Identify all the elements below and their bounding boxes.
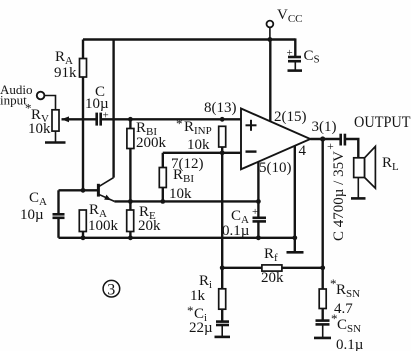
capacitor C 4700µ/35V: [327, 134, 347, 241]
svg-text:RINP: RINP: [184, 119, 212, 137]
capacitor C 10µ: [85, 84, 109, 126]
ground (CS): [288, 69, 303, 72]
svg-text:+: +: [327, 139, 334, 153]
wire pin2 column: [269, 40, 271, 122]
node Rf left: [220, 265, 225, 270]
wire pin5 column: [257, 162, 259, 201]
ground (CSN): [314, 337, 331, 340]
svg-text:5(10): 5(10): [259, 160, 292, 176]
resistor RBI 200k with column: [127, 119, 167, 201]
svg-text:0.1µ: 0.1µ: [336, 337, 364, 351]
node CA bottom: [256, 235, 261, 240]
resistor RA 100k: [79, 202, 118, 238]
svg-text:3(1): 3(1): [312, 119, 337, 135]
node pin5 junction: [256, 199, 261, 204]
svg-text:RSN: RSN: [336, 282, 360, 300]
svg-text:10k: 10k: [28, 121, 51, 137]
node output junction: [320, 136, 325, 141]
resistor RINP 10k with feedback column: [176, 116, 226, 268]
wire signal (wiper to op-amp +): [62, 118, 241, 120]
ground (pin4): [287, 251, 304, 254]
svg-text:100k: 100k: [88, 218, 119, 234]
transistor Q1: [98, 178, 114, 202]
svg-text:*: *: [176, 116, 183, 131]
svg-text:22µ: 22µ: [189, 320, 213, 336]
svg-text:input: input: [0, 93, 27, 108]
node VCC junction: [268, 37, 273, 42]
resistor RE 20k: [127, 201, 161, 237]
svg-text:10k: 10k: [169, 186, 192, 202]
svg-text:*: *: [187, 303, 194, 318]
speaker RL: [354, 146, 399, 188]
svg-text:RL: RL: [382, 155, 399, 173]
ground (Rv): [45, 131, 66, 142]
svg-text:Rf: Rf: [264, 246, 278, 264]
resistor RSN 4.7: [319, 268, 360, 321]
resistor RA 91k with column: [54, 40, 87, 191]
svg-text:+: +: [252, 206, 258, 218]
svg-text:10µ: 10µ: [20, 207, 44, 223]
node RE top: [128, 199, 133, 204]
resistor RBI 10k: [159, 153, 203, 202]
wire output row: [310, 138, 340, 140]
wire pin4 column: [294, 146, 296, 253]
svg-text:2(15): 2(15): [274, 109, 307, 125]
capacitor CA 0.1µ with column: [222, 201, 266, 239]
svg-text:200k: 200k: [136, 135, 167, 151]
node RE bottom: [128, 235, 133, 240]
wire CS drop: [294, 38, 296, 56]
ground (speaker): [351, 178, 366, 199]
node RA100k bottom: [81, 235, 86, 240]
svg-text:10k: 10k: [187, 137, 210, 153]
node RBI10k bottom: [160, 199, 165, 204]
svg-text:20k: 20k: [261, 270, 284, 286]
svg-text:OUTPUT: OUTPUT: [354, 114, 411, 131]
svg-text:20k: 20k: [138, 218, 161, 234]
svg-text:VCC: VCC: [277, 7, 303, 25]
svg-text:CS: CS: [304, 48, 320, 66]
node pin4 rail junction: [292, 235, 297, 240]
wire emitter row: [114, 200, 258, 202]
ground (Ci): [215, 336, 231, 339]
wire collector column: [112, 40, 114, 178]
audio input terminal: [0, 82, 56, 111]
resistor Ri 1k: [190, 268, 226, 322]
node Rf right: [320, 265, 325, 270]
capacitor CSN 0.1µ: [316, 311, 364, 351]
svg-text:1k: 1k: [190, 288, 206, 304]
svg-text:4: 4: [299, 143, 307, 159]
VCC terminal: [267, 7, 303, 40]
svg-text:C 4700µ / 35V: C 4700µ / 35V: [331, 151, 347, 241]
potentiometer Rv 10k: [25, 101, 69, 138]
wire VCC top rail: [83, 38, 295, 40]
node base junction: [81, 188, 86, 193]
node RBI200k top: [128, 117, 133, 122]
capacitor CS: [287, 47, 320, 70]
capacitor CA 10µ with column: [20, 190, 65, 238]
figure number 3: [103, 280, 120, 298]
wire minus input row: [163, 152, 241, 154]
node RINP top: [220, 117, 225, 122]
capacitor Ci 22µ: [187, 303, 229, 337]
op-amp U1: [204, 100, 337, 176]
svg-text:10µ: 10µ: [85, 96, 109, 112]
svg-text:3: 3: [107, 282, 115, 299]
resistor Rf 20k: [222, 246, 323, 286]
svg-text:CA: CA: [29, 190, 47, 208]
svg-text:CSN: CSN: [337, 317, 361, 335]
svg-text:8(13): 8(13): [204, 100, 237, 116]
svg-text:+: +: [287, 47, 293, 59]
svg-text:91k: 91k: [54, 65, 77, 81]
wire to speaker: [345, 139, 358, 158]
wire base node: [59, 189, 99, 191]
node RINP bottom: [220, 150, 225, 155]
wire bottom rail: [59, 237, 295, 239]
wire output column: [322, 139, 324, 268]
